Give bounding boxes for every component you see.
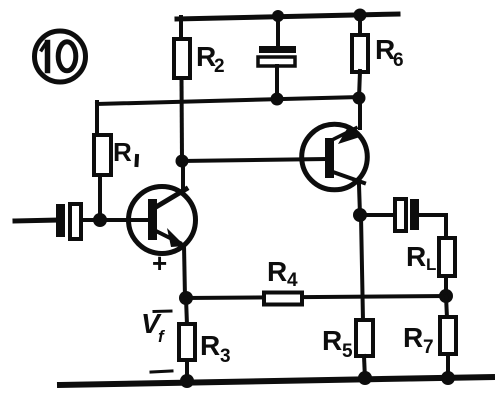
resistor R1 (94, 135, 137, 175)
transistor Q1 (129, 187, 196, 254)
resistor R2 (174, 39, 225, 78)
svg-text:7: 7 (423, 337, 434, 358)
node Q1 emitter junction (179, 291, 193, 305)
label Vf (141, 308, 166, 346)
wire output cap to RL (419, 213, 446, 217)
wire feedback row (186, 296, 446, 298)
node capacitor bottom junction (271, 93, 284, 106)
wire R2 top stub (179, 17, 183, 41)
svg-text:+: + (152, 248, 167, 278)
svg-text:L: L (426, 255, 436, 274)
wire Q1 collector up (181, 161, 185, 190)
resistor RL (406, 238, 455, 276)
wire down to R3 (186, 298, 187, 325)
transistor Q2 (302, 124, 368, 190)
wire input cap to base (82, 218, 148, 222)
wire R6 bottom stub (359, 71, 360, 98)
node on rail above capacitor (272, 10, 284, 22)
svg-text:3: 3 (220, 346, 231, 367)
node R7 ground junction (441, 371, 455, 385)
svg-text:6: 6 (393, 50, 404, 71)
svg-text:R: R (267, 256, 287, 287)
wire Q2 column down to R5 (361, 216, 363, 321)
node on rail above R6 (354, 9, 367, 22)
svg-text:R: R (406, 241, 426, 272)
wire Q2 bottom to output node (359, 185, 360, 215)
wire down to R7 (446, 296, 447, 318)
wire R1 bottom to input node (98, 175, 102, 220)
resistor R3 (179, 324, 231, 367)
ground rail (60, 377, 492, 385)
svg-text:4: 4 (287, 270, 298, 291)
label minus (151, 371, 172, 372)
node R3 ground junction (180, 374, 194, 388)
wire mid horizontal bus (97, 97, 359, 104)
node A collector junction (176, 155, 189, 168)
wire drop to R1 (95, 102, 99, 136)
wire Q1 collector to Q2 base (182, 159, 325, 161)
wire R2 bottom to node A (180, 78, 185, 161)
wire R6 top stub (358, 15, 362, 36)
resistor R5 (322, 320, 373, 362)
wire Q2 top to R6 node (358, 98, 362, 128)
wire capacitor bottom stub (275, 66, 279, 98)
node RL bottom junction (439, 289, 453, 303)
resistor R6 (352, 34, 404, 72)
wire R5 bottom (364, 356, 365, 379)
wire Q1 emitter down (184, 245, 185, 298)
wire top supply rail (177, 14, 398, 19)
svg-text:2: 2 (214, 56, 225, 77)
resistor R4 (264, 256, 302, 305)
capacitor output coupling (395, 199, 419, 231)
node input junction (93, 213, 107, 227)
resistor R7 (403, 317, 456, 358)
svg-text:5: 5 (342, 341, 353, 362)
node output junction (353, 208, 367, 222)
svg-text:R: R (322, 325, 342, 356)
wire capacitor top stub (276, 16, 280, 47)
wire input lead (15, 220, 57, 221)
svg-text:R: R (403, 322, 423, 353)
node R5 ground junction (358, 371, 372, 385)
capacitor input coupling (56, 204, 81, 239)
wire to output capacitor (360, 213, 395, 217)
wire R7 bottom (446, 354, 450, 379)
svg-text:R: R (200, 330, 220, 361)
wire R3 bottom (185, 360, 189, 381)
svg-text:R: R (113, 137, 132, 167)
capacitor C1 bypass (258, 46, 296, 66)
node R6 bottom junction (353, 92, 366, 105)
svg-text:f: f (158, 327, 166, 346)
figure number badge 10 (35, 31, 86, 82)
wire RL bottom (444, 276, 448, 296)
